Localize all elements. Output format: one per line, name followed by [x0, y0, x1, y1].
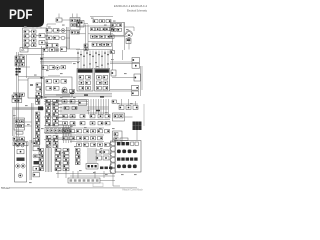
wire left pair — [41, 46, 43, 99]
plug PL5 — [111, 169, 116, 174]
wire — [67, 48, 81, 50]
wire — [124, 22, 126, 50]
label mark 0 — [24, 26, 27, 27]
wire vertical — [26, 55, 28, 78]
lamp Hc — [55, 48, 59, 52]
label mark 9 — [46, 70, 49, 71]
relay Ka4 — [53, 113, 59, 116]
K8 cell a — [16, 120, 20, 123]
junction — [95, 62, 96, 63]
wire — [65, 30, 70, 32]
bus wire — [16, 52, 18, 142]
wire pair2 — [31, 103, 33, 143]
wire — [94, 171, 96, 178]
relay Ke3 — [90, 122, 95, 125]
relay K5d — [107, 43, 111, 46]
sensor st — [110, 51, 115, 54]
connector CNd6 — [63, 168, 69, 171]
fuse Fb8 — [36, 138, 40, 141]
label mark 46 — [134, 174, 137, 175]
connector CNc1 — [55, 152, 61, 155]
svg-text:3A: 3A — [21, 48, 25, 52]
fuse Fb6 — [36, 132, 40, 135]
connector CNc0 — [55, 149, 61, 152]
bus block BB1 — [45, 128, 70, 134]
relay Hb — [50, 48, 55, 52]
wire — [44, 125, 76, 127]
fuse Fc1 — [76, 152, 81, 155]
motor box M3 — [113, 113, 125, 121]
JB1 cell 3 — [95, 165, 97, 167]
wire — [72, 14, 74, 18]
relay Ka2 — [53, 106, 59, 109]
plug PL4 — [111, 163, 116, 168]
solenoid SVb0 — [63, 137, 68, 140]
fuse Fb5 — [36, 129, 40, 132]
sensor Sb3 — [98, 143, 103, 146]
wire row link — [46, 33, 66, 35]
FB0 cell b — [76, 19, 80, 22]
label mark 45 — [121, 174, 124, 175]
label mark 5 — [113, 21, 116, 22]
regulator RG1 — [113, 131, 123, 142]
diode Da2 — [46, 106, 51, 109]
wire pair — [29, 140, 31, 180]
U2 cell 3 — [79, 81, 84, 85]
diode D1c — [32, 39, 37, 42]
solenoid SVa1 — [70, 130, 75, 133]
U1 cell 4 — [46, 87, 52, 91]
terminal Tc4 — [39, 162, 44, 165]
relay K41 — [103, 156, 109, 160]
wire — [36, 35, 39, 37]
wire — [112, 77, 134, 79]
relay Ka1 — [53, 103, 59, 106]
r4 cell 1 — [122, 165, 126, 169]
junction — [89, 63, 90, 64]
connector CNc3 — [55, 158, 61, 161]
splice tick — [89, 54, 91, 55]
fuse row 1 — [15, 56, 20, 59]
wire — [77, 51, 79, 69]
wire — [62, 119, 110, 121]
connector CNc4 — [55, 162, 61, 165]
label mark 11 — [73, 63, 76, 64]
FB0 cell a — [71, 19, 75, 22]
sensor S5 — [132, 91, 139, 96]
solenoid SVb5 — [98, 137, 103, 140]
label mark 35 — [62, 152, 65, 153]
U2 cell 4 — [86, 81, 91, 85]
fuse Fc2 — [76, 155, 81, 158]
JB1 cell 1 — [88, 165, 90, 167]
junction — [101, 65, 102, 66]
svg-text:Hitachi Const Mach: Hitachi Const Mach — [122, 188, 143, 191]
gauge single — [18, 173, 22, 177]
box JL — [111, 70, 116, 76]
relay Kd4 — [98, 115, 103, 118]
r2 cell 3 — [133, 150, 137, 154]
wire — [29, 40, 32, 42]
JB0 cell a — [112, 24, 117, 27]
wire — [84, 23, 88, 25]
fuse row 3 — [15, 63, 20, 66]
relay Ka6 — [53, 120, 59, 123]
controller box U0 — [77, 21, 85, 28]
label mark 23 — [130, 103, 133, 104]
relay K43 — [96, 156, 102, 160]
lamp L1 — [61, 29, 65, 33]
wire — [125, 116, 133, 118]
wire — [107, 51, 109, 69]
fuse Fb4 — [36, 125, 40, 128]
relay K42 — [96, 150, 102, 154]
wire branches — [18, 54, 44, 56]
switch SW2 — [54, 29, 60, 33]
splice tick — [95, 53, 97, 54]
relay K3b — [96, 28, 100, 31]
relay Hf — [49, 66, 55, 70]
label mark 44 — [105, 174, 108, 175]
M3 cell a — [114, 115, 118, 118]
fuse Fa1 — [36, 99, 40, 102]
wire — [46, 148, 48, 172]
terminal ticks — [16, 68, 18, 70]
svg-text:556-E2: 556-E2 — [1, 186, 10, 190]
r4 cell 0 — [117, 165, 121, 169]
diode Da4 — [46, 113, 51, 116]
valve box V1 — [79, 100, 87, 106]
JB0 cell c — [112, 28, 117, 31]
wire — [110, 89, 132, 91]
splice tick — [86, 53, 88, 54]
JB1 cell 2 — [91, 165, 93, 167]
fuse Fb9 — [36, 142, 40, 145]
relay K1b — [24, 35, 29, 38]
fuse Fb0 — [36, 112, 40, 115]
solenoid SVa5 — [98, 130, 103, 133]
wire — [92, 51, 94, 69]
ground cell 2 — [78, 179, 81, 181]
relay Ka7 — [53, 123, 59, 126]
wire top link — [46, 24, 48, 27]
jbox e — [64, 107, 69, 110]
side stack circles — [33, 154, 37, 158]
wire — [93, 148, 95, 164]
U2 connector strip — [78, 69, 93, 73]
wire — [104, 51, 106, 69]
relay K2a — [71, 31, 75, 34]
solenoid SVa4 — [91, 130, 96, 133]
label mark 31 — [112, 128, 115, 129]
wire — [58, 100, 62, 102]
relay box K1 — [23, 28, 48, 49]
wire — [103, 171, 105, 178]
wire motor drop — [128, 37, 130, 49]
solenoid SVb4 — [91, 137, 96, 140]
terminal Tc0 — [39, 149, 44, 152]
relay Kc2 — [53, 142, 58, 145]
relay K3a — [91, 28, 95, 31]
top bus wire — [90, 16, 113, 18]
relay K1a — [24, 30, 29, 33]
terminal Tc6 — [39, 168, 44, 171]
gap relay b — [84, 48, 88, 51]
side stack dark — [34, 161, 40, 164]
r3 cell 1 — [121, 158, 124, 161]
ground cell 5 — [92, 179, 95, 181]
relay K5b — [97, 43, 101, 46]
U1 label strip — [48, 75, 60, 77]
relay K4c — [101, 35, 105, 38]
wire stubs badge — [32, 27, 34, 28]
wire — [29, 35, 32, 37]
solenoid SVb3 — [84, 137, 89, 140]
fuse Fb2 — [36, 119, 40, 122]
relay Ke2 — [80, 122, 85, 125]
sensor Sb2 — [91, 143, 96, 146]
wire — [95, 148, 97, 164]
wire — [45, 148, 47, 172]
plug PL1 — [111, 147, 116, 152]
label mark 28 — [70, 126, 73, 127]
aux box — [112, 100, 117, 103]
wire — [58, 117, 62, 119]
wire — [100, 99, 102, 115]
wire — [58, 124, 62, 126]
label mark 6 — [126, 29, 129, 30]
U1 cell 3 — [61, 80, 67, 84]
label mark 24 — [13, 115, 16, 116]
wire — [80, 51, 82, 69]
relay Ha — [43, 48, 48, 52]
label mark 17 — [44, 97, 47, 98]
jbox b — [70, 90, 75, 93]
box Hd — [61, 47, 67, 52]
label mark 4 — [104, 25, 107, 26]
gauge pair — [16, 164, 20, 168]
splice tick — [107, 54, 109, 55]
svg-text:EX200-2/LC-2 EX220-2/LC-2: EX200-2/LC-2 EX220-2/LC-2 — [114, 4, 147, 8]
wire — [100, 180, 115, 182]
switch SW5 — [46, 44, 52, 48]
sensor S2 — [132, 63, 140, 68]
wire — [108, 99, 110, 115]
solenoid SVb2 — [77, 137, 82, 140]
solenoid SVb1 — [70, 137, 75, 140]
wire — [110, 61, 132, 63]
connector block — [115, 141, 141, 173]
motor M1 — [126, 31, 133, 38]
wire — [62, 19, 70, 21]
bus lines — [40, 57, 80, 59]
relay K5a — [92, 43, 96, 46]
dark bar — [17, 158, 25, 161]
label mark 10 — [60, 73, 63, 74]
r2 cell 0 — [117, 150, 121, 154]
conn CNa — [93, 20, 98, 23]
junction box JB0 — [111, 23, 125, 36]
r3 cell 4 — [134, 158, 137, 161]
BB1 cell 0 — [46, 129, 49, 132]
U2 cell 6 — [86, 86, 91, 90]
pump P2 — [126, 106, 131, 110]
U1 cell 2 — [54, 80, 60, 84]
connector CNd4 — [63, 162, 69, 165]
relay K6 — [15, 93, 20, 96]
wire — [52, 29, 54, 31]
connector CNc2 — [55, 155, 61, 158]
pump P1 — [119, 106, 124, 110]
label mark 33 — [33, 138, 36, 139]
wire — [58, 113, 62, 115]
relay K1d — [24, 44, 29, 47]
U2 cell 5 — [79, 86, 84, 90]
wire — [58, 103, 62, 105]
K8 cell b — [20, 120, 24, 123]
battery disconnect box — [20, 48, 28, 53]
terminal Tc1 — [39, 152, 44, 155]
wire — [29, 44, 32, 46]
diode D1b — [32, 35, 37, 38]
relay Ka3 — [53, 110, 59, 113]
wire — [112, 52, 114, 70]
solenoid SVa2 — [77, 130, 82, 133]
fp cell 1 — [36, 83, 42, 86]
small circle pair — [16, 144, 19, 147]
relay box K8 — [14, 118, 25, 130]
wire — [58, 130, 62, 132]
relay K3e — [110, 28, 114, 31]
diode D1a — [32, 30, 37, 33]
jbox c — [62, 100, 67, 103]
diode Da0 — [46, 100, 51, 103]
label mark 39 — [113, 139, 116, 140]
ECU U3 — [95, 69, 110, 92]
U3 cell 2 — [103, 76, 108, 80]
junction blob — [96, 110, 100, 112]
U1 cell 1 — [46, 80, 52, 84]
wire pair — [12, 110, 14, 136]
ground cell 3 — [83, 179, 86, 181]
r2 cell 1 — [122, 150, 126, 154]
relay K3c — [101, 28, 105, 31]
solenoid SVa0 — [63, 130, 68, 133]
fuse Fc3 — [76, 159, 81, 162]
wire — [25, 121, 32, 123]
fuse Fa2 — [36, 102, 40, 105]
label mark 13 — [111, 59, 114, 60]
label mark 25 — [27, 124, 30, 125]
ground bar — [68, 178, 100, 183]
relay K1c — [24, 39, 29, 42]
wire right edge — [143, 104, 145, 126]
sensor S4 — [132, 86, 139, 91]
junction — [83, 65, 84, 66]
ECU U2 — [77, 69, 93, 92]
wire — [29, 31, 32, 33]
U2 cell 1 — [79, 76, 84, 80]
wire — [44, 139, 76, 141]
junction — [107, 63, 108, 64]
label mark 30 — [99, 128, 102, 129]
label mark 41 — [58, 170, 61, 171]
battery B1 — [13, 137, 18, 141]
PDF badge — [0, 0, 44, 27]
U3 cell 1 — [97, 76, 102, 80]
r4 cell 2 — [128, 165, 132, 169]
splice tick — [83, 56, 85, 57]
label mark 42 — [79, 170, 82, 171]
BB1 cell 1 — [50, 129, 53, 132]
splice tick — [104, 53, 106, 54]
dark row — [100, 167, 103, 170]
wire — [44, 132, 76, 134]
relay Kc3 — [53, 145, 58, 148]
r4 cell 3 — [133, 165, 137, 169]
relay Kd1 — [70, 115, 75, 118]
wire pair down — [140, 66, 142, 96]
wire — [51, 148, 53, 172]
gap relay a — [84, 44, 88, 47]
ground cell 0 — [70, 179, 73, 181]
relay Kb0 — [46, 136, 51, 139]
box Hh — [61, 66, 66, 69]
JB0 cell d — [117, 28, 122, 31]
fuse Fc0 — [76, 149, 81, 152]
ground cell 4 — [87, 179, 90, 181]
relay K2b — [76, 31, 80, 34]
JB0 cell b — [117, 24, 122, 27]
wire — [89, 51, 91, 69]
relay Kb3 — [46, 145, 51, 148]
wire — [72, 171, 74, 178]
relay K3d — [106, 28, 110, 31]
r2 cell 2 — [128, 150, 132, 154]
splice tick — [101, 56, 103, 57]
fuse F1 — [39, 34, 45, 38]
label mark 38 — [100, 148, 103, 149]
splice tick — [77, 53, 79, 54]
band blob — [38, 106, 43, 110]
fuse Fb3 — [36, 122, 40, 125]
relay K4e — [110, 35, 114, 38]
relay Ka5 — [53, 117, 59, 120]
wire — [101, 51, 103, 69]
label mark 36 — [74, 146, 77, 147]
r3 cell 0 — [117, 158, 120, 161]
relay Ke0 — [63, 122, 68, 125]
relay Kd3 — [90, 115, 95, 118]
label mark 19 — [73, 97, 76, 98]
diode Da6 — [46, 120, 51, 123]
row1 cells — [117, 142, 120, 145]
ground cell 1 — [74, 179, 77, 181]
label mark 22 — [117, 103, 120, 104]
controller box U1 — [44, 77, 72, 97]
relay Kc0 — [53, 136, 58, 139]
diode Da5 — [46, 117, 51, 120]
label mark 27 — [55, 133, 58, 134]
wire — [58, 110, 62, 112]
U1 gauge — [62, 87, 67, 92]
wire — [87, 148, 89, 164]
wire — [57, 171, 59, 178]
connector CNd2 — [63, 155, 69, 158]
wire — [88, 99, 90, 115]
wire — [121, 99, 123, 106]
wire — [58, 120, 62, 122]
